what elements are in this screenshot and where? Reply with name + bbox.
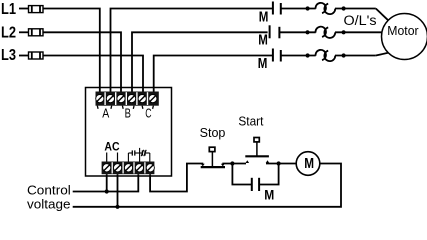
contact M3 <box>273 49 281 62</box>
node junction dot start right <box>277 161 281 165</box>
wire contact M3 to OL3 <box>282 55 316 57</box>
internal relay contact symbol <box>128 148 149 162</box>
svg-text:O/L's: O/L's <box>344 13 377 28</box>
node junction dot row1 left <box>306 6 310 10</box>
wire L3 fuse to terminal C1 <box>43 56 143 92</box>
wire diagonal row3 into motor <box>376 53 388 56</box>
wire L2 fuse to terminal B1 <box>43 32 121 91</box>
node L1 label <box>1 1 16 18</box>
auxiliary contact M (holding) <box>232 164 278 192</box>
wire L1 to fuse <box>19 8 29 10</box>
node L3 label <box>1 47 16 64</box>
svg-text:B: B <box>125 106 131 121</box>
label AC <box>104 140 119 154</box>
svg-text:Stop: Stop <box>200 125 226 140</box>
wire control line to T4 <box>73 174 139 191</box>
wire OL2 to motor <box>335 31 382 33</box>
terminal strip bottom TS2 <box>102 162 155 175</box>
overload heater OL2 <box>316 27 336 38</box>
wire terminal A2 up to contact M1 row <box>111 9 273 92</box>
wire diagonal row1 into motor <box>376 9 388 21</box>
wire terminal C2 up to contact M3 row <box>154 56 273 92</box>
svg-text:M: M <box>264 186 274 202</box>
svg-text:voltage: voltage <box>27 196 71 211</box>
wire L1 fuse to terminal A1 <box>43 9 100 92</box>
wire stop rail to coil <box>222 163 246 165</box>
svg-text:M: M <box>259 10 269 26</box>
wire L2 to fuse <box>19 31 29 33</box>
svg-text:L3: L3 <box>1 47 16 64</box>
wire bottom T5 to stop rail <box>150 164 203 192</box>
node B label <box>125 106 131 121</box>
wire L3 to fuse <box>19 55 29 57</box>
wire contact M2 to OL2 <box>280 31 316 33</box>
wire AC stub T2 <box>117 153 119 162</box>
node junction dot start left <box>230 161 234 165</box>
fuse F2 <box>29 29 44 36</box>
terminal strip top TS1 <box>96 92 159 106</box>
fuse F3 <box>29 52 44 59</box>
node junction dot row1 right <box>342 6 346 10</box>
wire contact M1 to OL1 <box>282 8 316 10</box>
contact M1 <box>273 2 281 15</box>
pushbutton Start (NO) <box>245 138 269 164</box>
node junction dot row3 right <box>342 53 346 57</box>
wire bottom T2 down to voltage line <box>117 174 119 207</box>
overload heater OL3 <box>316 50 336 61</box>
fuse F1 <box>29 6 44 13</box>
svg-text:M: M <box>258 33 268 49</box>
wire OL3 to motor <box>335 55 376 57</box>
node L2 label <box>1 24 16 41</box>
label Control voltage <box>27 182 71 211</box>
wire coil return <box>73 164 341 207</box>
svg-text:M: M <box>304 156 314 172</box>
pushbutton Stop (NC) <box>201 147 225 167</box>
contact M2 <box>270 25 280 38</box>
wire terminal B2 up to contact M2 row <box>132 32 268 91</box>
wire AC stub T1 <box>106 153 108 162</box>
node C label <box>145 106 151 121</box>
label Stop <box>200 125 226 140</box>
svg-text:AC: AC <box>104 140 119 154</box>
svg-text:C: C <box>145 106 151 121</box>
svg-text:L2: L2 <box>1 24 16 41</box>
svg-text:A: A <box>102 106 109 121</box>
tick marks under terminal pair C <box>142 106 153 109</box>
tick marks under terminal pair A <box>97 106 111 109</box>
node junction dot row3 left <box>306 53 310 57</box>
node A label <box>102 106 109 121</box>
label Start <box>238 114 263 129</box>
overload heater OL1 <box>316 3 336 14</box>
label O/L's <box>344 13 377 28</box>
starter box outline U1 <box>86 88 172 177</box>
coil M1 <box>296 152 320 176</box>
tick marks under terminal pair B <box>122 106 134 109</box>
node junction dot row2 left <box>305 30 309 34</box>
svg-text:L1: L1 <box>1 1 16 18</box>
svg-text:Control: Control <box>27 182 71 197</box>
wire OL1 to motor <box>335 8 376 10</box>
wire bottom T1 down to control line <box>106 174 108 191</box>
label M aux <box>264 186 274 202</box>
node junction dot voltage/T2 <box>115 205 119 209</box>
node junction dot control/T1 <box>105 189 109 193</box>
svg-text:Start: Start <box>238 114 263 129</box>
svg-text:Motor: Motor <box>387 24 418 38</box>
svg-text:M: M <box>258 56 268 72</box>
node junction dot row2 right <box>342 30 346 34</box>
motor MTR <box>382 14 427 60</box>
